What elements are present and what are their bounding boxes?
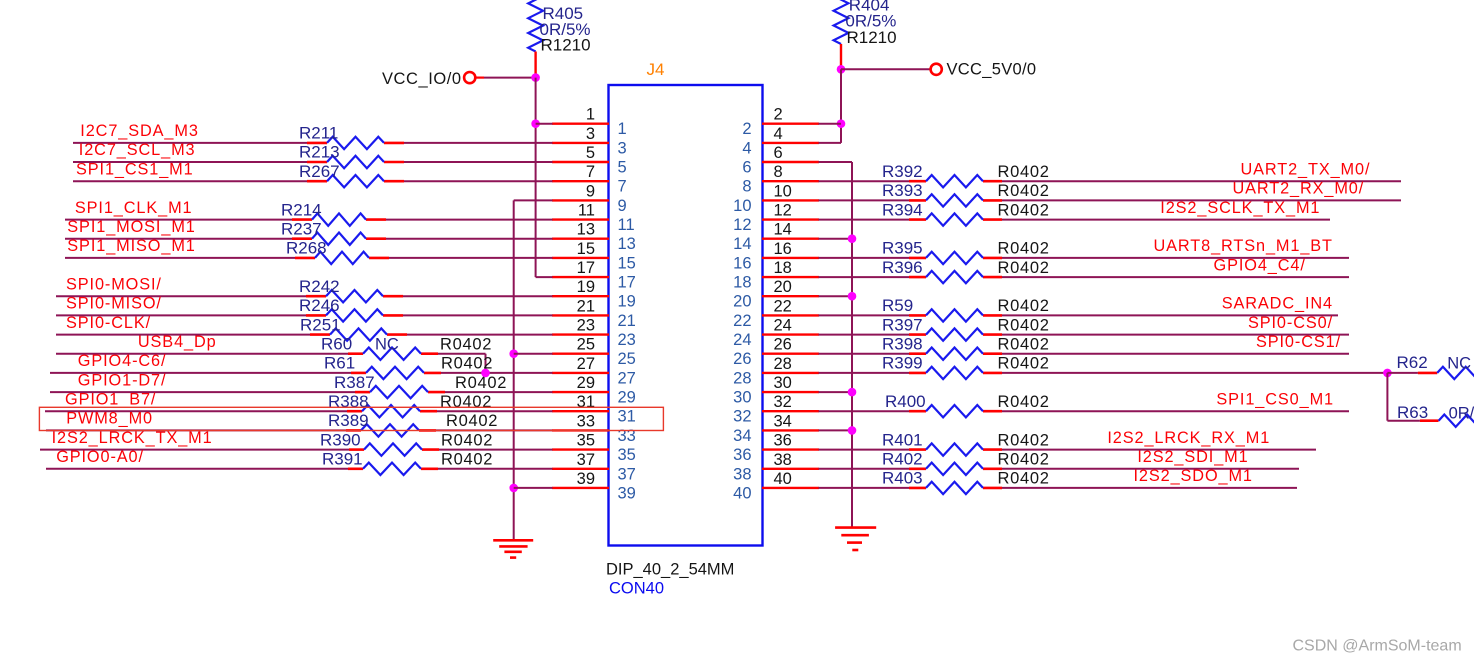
- svg-text:R0402: R0402: [441, 431, 493, 449]
- svg-text:SPI0-MOSI/: SPI0-MOSI/: [66, 275, 162, 293]
- pin 11 stub: [552, 218, 609, 220]
- pin 17 stub: [552, 276, 609, 278]
- svg-text:35: 35: [618, 446, 636, 464]
- svg-text:9: 9: [618, 197, 627, 215]
- resistor R267: [327, 175, 384, 187]
- svg-text:NC: NC: [375, 335, 399, 353]
- pin 38 stub: [762, 468, 819, 470]
- svg-text:7: 7: [586, 163, 595, 181]
- svg-text:SPI1_CS1_M1: SPI1_CS1_M1: [76, 160, 194, 178]
- pin 14 stub: [762, 237, 819, 239]
- node pin20/GND junction: [848, 292, 857, 301]
- svg-text:32: 32: [774, 393, 792, 411]
- svg-text:18: 18: [733, 274, 751, 292]
- svg-text:29: 29: [577, 374, 595, 392]
- svg-text:R0402: R0402: [441, 451, 493, 469]
- svg-text:32: 32: [733, 408, 751, 426]
- svg-text:VCC_5V0/0: VCC_5V0/0: [947, 61, 1037, 79]
- svg-text:23: 23: [577, 317, 595, 335]
- svg-text:15: 15: [577, 240, 595, 258]
- svg-text:24: 24: [774, 317, 792, 335]
- svg-text:I2C7_SDA_M3: I2C7_SDA_M3: [80, 122, 199, 140]
- wire VCC_IO vertical (node to pin17): [535, 78, 537, 278]
- svg-text:5: 5: [618, 159, 627, 177]
- pin 20 stub: [762, 295, 819, 297]
- resistor R388: [362, 405, 420, 417]
- pin 15 stub: [552, 257, 609, 259]
- svg-text:21: 21: [577, 297, 595, 315]
- pin 37 stub: [552, 468, 609, 470]
- resistor R403: [926, 482, 983, 494]
- pin 34 stub: [762, 429, 819, 431]
- pin 22 stub: [762, 314, 819, 316]
- svg-text:R0402: R0402: [998, 201, 1050, 219]
- svg-text:SPI1_CS0_M1: SPI1_CS0_M1: [1216, 390, 1334, 408]
- svg-text:37: 37: [577, 451, 595, 469]
- svg-text:4: 4: [774, 125, 783, 143]
- node pin39/GND junction: [509, 484, 518, 493]
- wire net I2S2_SCLK_TX_M1 (pin 12): [819, 219, 1331, 221]
- wire pin30 to GND: [819, 391, 853, 393]
- wire VCC_IO to pin17: [536, 276, 553, 278]
- svg-text:R399: R399: [882, 354, 923, 373]
- svg-text:CON40: CON40: [609, 580, 664, 598]
- svg-text:R398: R398: [882, 334, 923, 353]
- svg-text:7: 7: [618, 178, 627, 196]
- pin 12 stub: [762, 218, 819, 220]
- wire net SPI1_MOSI_M1 (pin 13): [65, 238, 553, 240]
- svg-text:16: 16: [733, 254, 751, 272]
- svg-text:27: 27: [577, 355, 595, 373]
- resistor R404 (vertical): [834, 0, 849, 44]
- svg-text:31: 31: [577, 393, 595, 411]
- svg-text:R394: R394: [882, 200, 923, 219]
- svg-text:13: 13: [577, 221, 595, 239]
- svg-text:SARADC_IN4: SARADC_IN4: [1222, 295, 1333, 313]
- svg-text:R0402: R0402: [998, 259, 1050, 277]
- svg-text:R0402: R0402: [998, 240, 1050, 258]
- svg-text:28: 28: [733, 369, 751, 387]
- svg-text:R268: R268: [286, 239, 327, 258]
- wire net GPIO4_C4/ (pin 18): [819, 276, 1350, 278]
- svg-text:36: 36: [733, 446, 751, 464]
- wire net SPI0-MISO/ (pin 21): [56, 314, 553, 316]
- svg-text:NC: NC: [1447, 355, 1471, 373]
- wire net SPI1_CS1_M1 (pin 7): [73, 180, 553, 182]
- svg-text:I2S2_LRCK_RX_M1: I2S2_LRCK_RX_M1: [1107, 429, 1270, 447]
- svg-text:R0402: R0402: [998, 451, 1050, 469]
- wire pin20 to GND: [819, 295, 853, 297]
- node pin34/GND junction: [848, 426, 857, 435]
- wire net UART8_RTSn_M1_BT (pin 16): [819, 257, 1350, 259]
- resistor R398: [926, 348, 983, 360]
- svg-text:DIP_40_2_54MM: DIP_40_2_54MM: [606, 561, 734, 579]
- svg-text:39: 39: [577, 470, 595, 488]
- svg-text:R395: R395: [882, 239, 923, 258]
- svg-text:12: 12: [774, 202, 792, 220]
- wire R404 to node: [840, 44, 842, 68]
- wire net SPI1_CS0_M1 (pin 32): [819, 410, 1350, 412]
- wire left GND vertical: [513, 200, 515, 540]
- pin 35 stub: [552, 448, 609, 450]
- resistor R389: [361, 424, 419, 436]
- connector J4 body: [609, 85, 763, 546]
- svg-text:R387: R387: [334, 373, 375, 392]
- resistor R211: [327, 137, 384, 149]
- wire net UART2_TX_M0/ (pin 8): [819, 180, 1402, 182]
- svg-text:SPI0-CS1/: SPI0-CS1/: [1256, 333, 1341, 351]
- svg-text:11: 11: [618, 216, 635, 234]
- svg-text:17: 17: [577, 259, 595, 277]
- svg-text:39: 39: [618, 484, 636, 502]
- resistor R401: [926, 443, 983, 455]
- pin 4 stub: [762, 142, 819, 144]
- svg-text:3: 3: [618, 139, 627, 157]
- wire VCC_5V vertical: [840, 69, 842, 143]
- pin 27 stub: [552, 372, 609, 374]
- wire node to pin1: [536, 123, 553, 125]
- svg-text:40: 40: [774, 470, 792, 488]
- wire pin6 to GND vertical: [819, 161, 853, 163]
- resistor R394: [926, 213, 983, 225]
- svg-text:R0402: R0402: [455, 374, 507, 392]
- pin 28 stub: [762, 372, 819, 374]
- ground symbol (right): [835, 528, 876, 550]
- svg-text:I2S2_SDI_M1: I2S2_SDI_M1: [1137, 448, 1248, 466]
- highlight box PWM8_M0: [39, 407, 663, 430]
- svg-text:38: 38: [733, 465, 751, 483]
- svg-text:GPIO1-D7/: GPIO1-D7/: [78, 371, 167, 389]
- svg-text:GPIO4-C6/: GPIO4-C6/: [78, 352, 167, 370]
- svg-text:R0402: R0402: [446, 412, 498, 430]
- resistor R60: [363, 348, 421, 360]
- svg-text:36: 36: [774, 432, 792, 450]
- resistor R391: [363, 463, 421, 475]
- pin 16 stub: [762, 257, 819, 259]
- svg-text:SPI1_MISO_M1: SPI1_MISO_M1: [67, 237, 195, 255]
- pin 31 stub: [552, 410, 609, 412]
- node R399/R62/R63 junction: [1383, 369, 1392, 378]
- svg-text:I2C7_SCL_M3: I2C7_SCL_M3: [79, 141, 196, 159]
- resistor R63 (clipped): [1439, 415, 1474, 427]
- svg-text:21: 21: [618, 312, 636, 330]
- svg-text:I2S2_SCLK_TX_M1: I2S2_SCLK_TX_M1: [1160, 199, 1320, 217]
- svg-text:R267: R267: [299, 162, 340, 181]
- pin 18 stub: [762, 276, 819, 278]
- pin 10 stub: [762, 199, 819, 201]
- resistor R214: [312, 213, 366, 225]
- svg-text:UART2_RX_M0/: UART2_RX_M0/: [1232, 180, 1364, 198]
- svg-text:PWM8_M0: PWM8_M0: [66, 410, 153, 428]
- svg-text:GPIO0-A0/: GPIO0-A0/: [56, 448, 144, 466]
- pin 8 stub: [762, 180, 819, 182]
- svg-text:R60: R60: [321, 334, 352, 353]
- svg-text:R1210: R1210: [847, 28, 897, 47]
- wire pin9 to GND vertical: [514, 199, 553, 201]
- resistor R397: [926, 328, 983, 340]
- resistor R390: [364, 443, 422, 455]
- svg-text:R242: R242: [299, 277, 340, 296]
- pin 5 stub: [552, 161, 609, 163]
- svg-text:40: 40: [733, 484, 751, 502]
- svg-text:R0402: R0402: [998, 182, 1050, 200]
- svg-text:R401: R401: [882, 430, 923, 449]
- svg-text:10: 10: [774, 182, 792, 200]
- svg-text:R396: R396: [882, 258, 923, 277]
- wire net I2C7_SDA_M3 (pin 3): [73, 142, 553, 144]
- pin 19 stub: [552, 295, 609, 297]
- svg-text:26: 26: [774, 336, 792, 354]
- svg-text:R213: R213: [299, 143, 340, 162]
- wire net USB4_Dp (pin 25): [56, 354, 486, 373]
- svg-text:SPI1_CLK_M1: SPI1_CLK_M1: [75, 199, 193, 217]
- svg-text:R1210: R1210: [541, 36, 591, 55]
- svg-text:R61: R61: [324, 354, 355, 373]
- svg-text:R59: R59: [882, 296, 913, 315]
- wire pin14 to GND: [819, 238, 853, 240]
- resistor R393: [926, 194, 983, 206]
- svg-text:UART2_TX_M0/: UART2_TX_M0/: [1240, 160, 1370, 178]
- svg-text:R214: R214: [281, 200, 322, 219]
- pin 21 stub: [552, 314, 609, 316]
- svg-text:SPI0-CLK/: SPI0-CLK/: [66, 314, 151, 332]
- pin 7 stub: [552, 180, 609, 182]
- wire net SPI0-CLK/ (pin 23): [56, 334, 553, 336]
- svg-text:11: 11: [578, 202, 595, 220]
- svg-text:25: 25: [618, 350, 636, 368]
- svg-text:J4: J4: [647, 60, 665, 79]
- svg-text:R388: R388: [328, 392, 369, 411]
- svg-text:VCC_IO/0: VCC_IO/0: [382, 70, 462, 88]
- svg-text:CSDN @ArmSoM-team: CSDN @ArmSoM-team: [1293, 638, 1462, 655]
- resistor R59: [926, 309, 983, 321]
- resistor R213: [327, 156, 384, 168]
- svg-text:R390: R390: [320, 430, 361, 449]
- wire net GPIO1_B7/ (pin 31): [45, 410, 553, 412]
- svg-text:R0402: R0402: [998, 470, 1050, 488]
- svg-text:3: 3: [586, 125, 595, 143]
- resistor R246: [326, 309, 383, 321]
- svg-text:6: 6: [742, 159, 751, 177]
- svg-text:R0402: R0402: [998, 163, 1050, 181]
- svg-text:26: 26: [733, 350, 751, 368]
- terminal VCC_IO/0: [464, 72, 475, 83]
- svg-text:R403: R403: [882, 469, 923, 488]
- svg-text:2: 2: [742, 120, 751, 138]
- pin 30 stub: [762, 391, 819, 393]
- pin 36 stub: [762, 448, 819, 450]
- svg-text:R0402: R0402: [998, 393, 1050, 411]
- svg-text:5: 5: [586, 144, 595, 162]
- wire R405 to node: [534, 52, 536, 76]
- wire net SPI0-MOSI/ (pin 19): [56, 295, 553, 297]
- svg-text:R0402: R0402: [998, 431, 1050, 449]
- svg-text:R237: R237: [281, 219, 322, 238]
- wire net SPI1_CLK_M1 (pin 11): [65, 219, 553, 221]
- wire VCC_IO terminal to node: [476, 76, 536, 78]
- svg-text:R63: R63: [1397, 403, 1428, 422]
- wire net I2S2_LRCK_RX_M1 (pin 36): [819, 449, 1317, 451]
- svg-text:33: 33: [577, 412, 595, 430]
- resistor R242: [326, 290, 383, 302]
- pin 33 stub: [552, 429, 609, 431]
- svg-text:37: 37: [618, 465, 636, 483]
- wire net I2S2_LRCK_TX_M1 (pin 35): [40, 449, 553, 451]
- resistor R387: [370, 386, 428, 398]
- wire net I2S2_SDO_M1 (pin 40): [819, 487, 1298, 489]
- resistor R392: [926, 175, 983, 187]
- wire net UART2_RX_M0/ (pin 10): [819, 199, 1402, 201]
- pin 3 stub: [552, 142, 609, 144]
- svg-text:R0402: R0402: [998, 355, 1050, 373]
- svg-text:20: 20: [733, 293, 751, 311]
- svg-text:12: 12: [733, 216, 751, 234]
- pin 32 stub: [762, 410, 819, 412]
- svg-text:2: 2: [774, 106, 783, 124]
- svg-text:9: 9: [586, 182, 595, 200]
- node pin30/GND junction: [848, 388, 857, 397]
- svg-text:22: 22: [733, 312, 751, 330]
- pin 23 stub: [552, 333, 609, 335]
- svg-text:33: 33: [618, 427, 636, 445]
- svg-text:28: 28: [774, 355, 792, 373]
- wire net SARADC_IN4 (pin 22): [819, 314, 1339, 316]
- wire junction down to R63: [1387, 373, 1438, 421]
- wire node to VCC_5V terminal: [841, 68, 930, 70]
- wire net GPIO1-D7/ (pin 29): [50, 391, 553, 393]
- wire net I2C7_SCL_M3 (pin 5): [73, 161, 553, 163]
- svg-text:R397: R397: [882, 315, 923, 334]
- resistor R400: [926, 405, 983, 417]
- wire GND to pin25: [514, 353, 553, 355]
- node VCC_5V junction: [837, 65, 846, 74]
- svg-text:30: 30: [733, 389, 751, 407]
- resistor R405 (vertical): [528, 0, 543, 52]
- wire junction to R62: [1387, 372, 1437, 374]
- node VCC_IO junction: [531, 73, 540, 82]
- svg-text:19: 19: [618, 293, 636, 311]
- node pin25/GND junction: [509, 349, 518, 358]
- svg-text:SPI1_MOSI_M1: SPI1_MOSI_M1: [67, 218, 195, 236]
- node pin2/VCC_5V junction: [837, 119, 846, 128]
- wire VCC_5V corner to pin4: [819, 142, 842, 144]
- svg-text:SPI0-MISO/: SPI0-MISO/: [66, 295, 162, 313]
- svg-text:18: 18: [774, 259, 792, 277]
- svg-text:16: 16: [774, 240, 792, 258]
- wire net GPIO4-C6/ (pin 27): [50, 372, 553, 374]
- wire node to pin2: [819, 123, 842, 125]
- resistor R395: [926, 252, 983, 264]
- svg-text:6: 6: [774, 144, 783, 162]
- svg-text:R392: R392: [882, 162, 923, 181]
- svg-text:30: 30: [774, 374, 792, 392]
- wire net GPIO0-A0/ (pin 37): [46, 468, 553, 470]
- svg-text:38: 38: [774, 451, 792, 469]
- pin 29 stub: [552, 391, 609, 393]
- svg-text:8: 8: [774, 163, 783, 181]
- resistor R251: [330, 328, 387, 340]
- svg-text:34: 34: [774, 412, 792, 430]
- wire net SPI1_MISO_M1 (pin 15): [65, 257, 553, 259]
- svg-text:GPIO1_B7/: GPIO1_B7/: [65, 390, 156, 408]
- wire net I2S2_SDI_M1 (pin 38): [819, 468, 1300, 470]
- svg-text:1: 1: [586, 106, 595, 124]
- svg-text:14: 14: [733, 235, 751, 253]
- svg-text:R0402: R0402: [998, 335, 1050, 353]
- pin 1 stub: [552, 122, 609, 124]
- svg-text:R391: R391: [322, 450, 363, 469]
- svg-text:24: 24: [733, 331, 751, 349]
- svg-text:25: 25: [577, 336, 595, 354]
- pin 9 stub: [552, 199, 609, 201]
- svg-text:UART8_RTSn_M1_BT: UART8_RTSn_M1_BT: [1154, 237, 1333, 255]
- svg-text:R402: R402: [882, 450, 923, 469]
- svg-text:USB4_Dp: USB4_Dp: [138, 333, 217, 351]
- resistor R402: [926, 463, 983, 475]
- svg-text:I2S2_SDO_M1: I2S2_SDO_M1: [1133, 467, 1252, 485]
- svg-text:R62: R62: [1397, 353, 1428, 372]
- wire net SPI0-CS1/ (pin 26): [819, 353, 1350, 355]
- svg-text:27: 27: [618, 369, 636, 387]
- svg-text:R400: R400: [885, 392, 926, 411]
- resistor R399: [926, 367, 983, 379]
- svg-text:R211: R211: [299, 124, 338, 143]
- svg-text:0R/5%: 0R/5%: [1449, 404, 1474, 422]
- svg-text:17: 17: [618, 274, 636, 292]
- svg-text:GPIO4_C4/: GPIO4_C4/: [1214, 256, 1306, 274]
- pin 26 stub: [762, 353, 819, 355]
- pin 6 stub: [762, 161, 819, 163]
- node pin1/VCC_IO junction: [531, 119, 540, 128]
- svg-text:19: 19: [577, 278, 595, 296]
- node R60/R61 net junction: [481, 369, 490, 378]
- resistor R62 (clipped): [1437, 367, 1474, 379]
- svg-text:22: 22: [774, 297, 792, 315]
- svg-text:14: 14: [774, 221, 792, 239]
- resistor R268: [315, 252, 369, 264]
- svg-text:R0402: R0402: [440, 335, 492, 353]
- wire net SPI0-CS0/ (pin 24): [819, 334, 1350, 336]
- svg-text:R393: R393: [882, 181, 923, 200]
- pin 25 stub: [552, 353, 609, 355]
- terminal VCC_5V0/0: [931, 64, 942, 75]
- svg-text:1: 1: [618, 120, 627, 138]
- svg-text:R0402: R0402: [998, 316, 1050, 334]
- svg-text:10: 10: [733, 197, 751, 215]
- node pin14/GND junction: [848, 234, 857, 243]
- wire pin34 to GND: [819, 429, 853, 431]
- svg-text:34: 34: [733, 427, 751, 445]
- svg-text:15: 15: [618, 254, 636, 272]
- resistor R237: [312, 233, 366, 245]
- resistor R61: [366, 367, 424, 379]
- svg-text:R0402: R0402: [440, 393, 492, 411]
- pin 40 stub: [762, 487, 819, 489]
- pin 2 stub: [762, 122, 819, 124]
- wire right GND vertical: [851, 162, 853, 528]
- svg-text:23: 23: [618, 331, 636, 349]
- svg-text:13: 13: [618, 235, 636, 253]
- svg-text:8: 8: [742, 178, 751, 196]
- pin 39 stub: [552, 487, 609, 489]
- pin 13 stub: [552, 237, 609, 239]
- svg-text:I2S2_LRCK_TX_M1: I2S2_LRCK_TX_M1: [52, 429, 213, 447]
- svg-text:R246: R246: [299, 296, 340, 315]
- wire net R399 output (pin 28): [819, 372, 1388, 374]
- svg-text:4: 4: [742, 139, 751, 157]
- svg-text:SPI0-CS0/: SPI0-CS0/: [1248, 314, 1333, 332]
- svg-text:R251: R251: [300, 315, 341, 334]
